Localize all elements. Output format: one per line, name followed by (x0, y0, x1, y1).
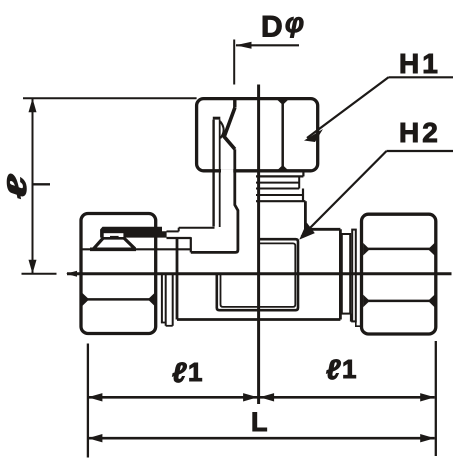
svg-text:φ: φ (285, 8, 304, 38)
svg-text:L: L (251, 407, 268, 437)
svg-text:ℓ: ℓ (326, 354, 341, 385)
svg-text:ℓ: ℓ (172, 357, 187, 388)
svg-text:ℓ: ℓ (2, 173, 32, 199)
svg-text:1: 1 (342, 354, 356, 384)
svg-text:D: D (261, 11, 283, 44)
svg-text:H2: H2 (399, 117, 441, 148)
svg-text:1: 1 (188, 357, 202, 387)
svg-text:H1: H1 (399, 48, 441, 79)
